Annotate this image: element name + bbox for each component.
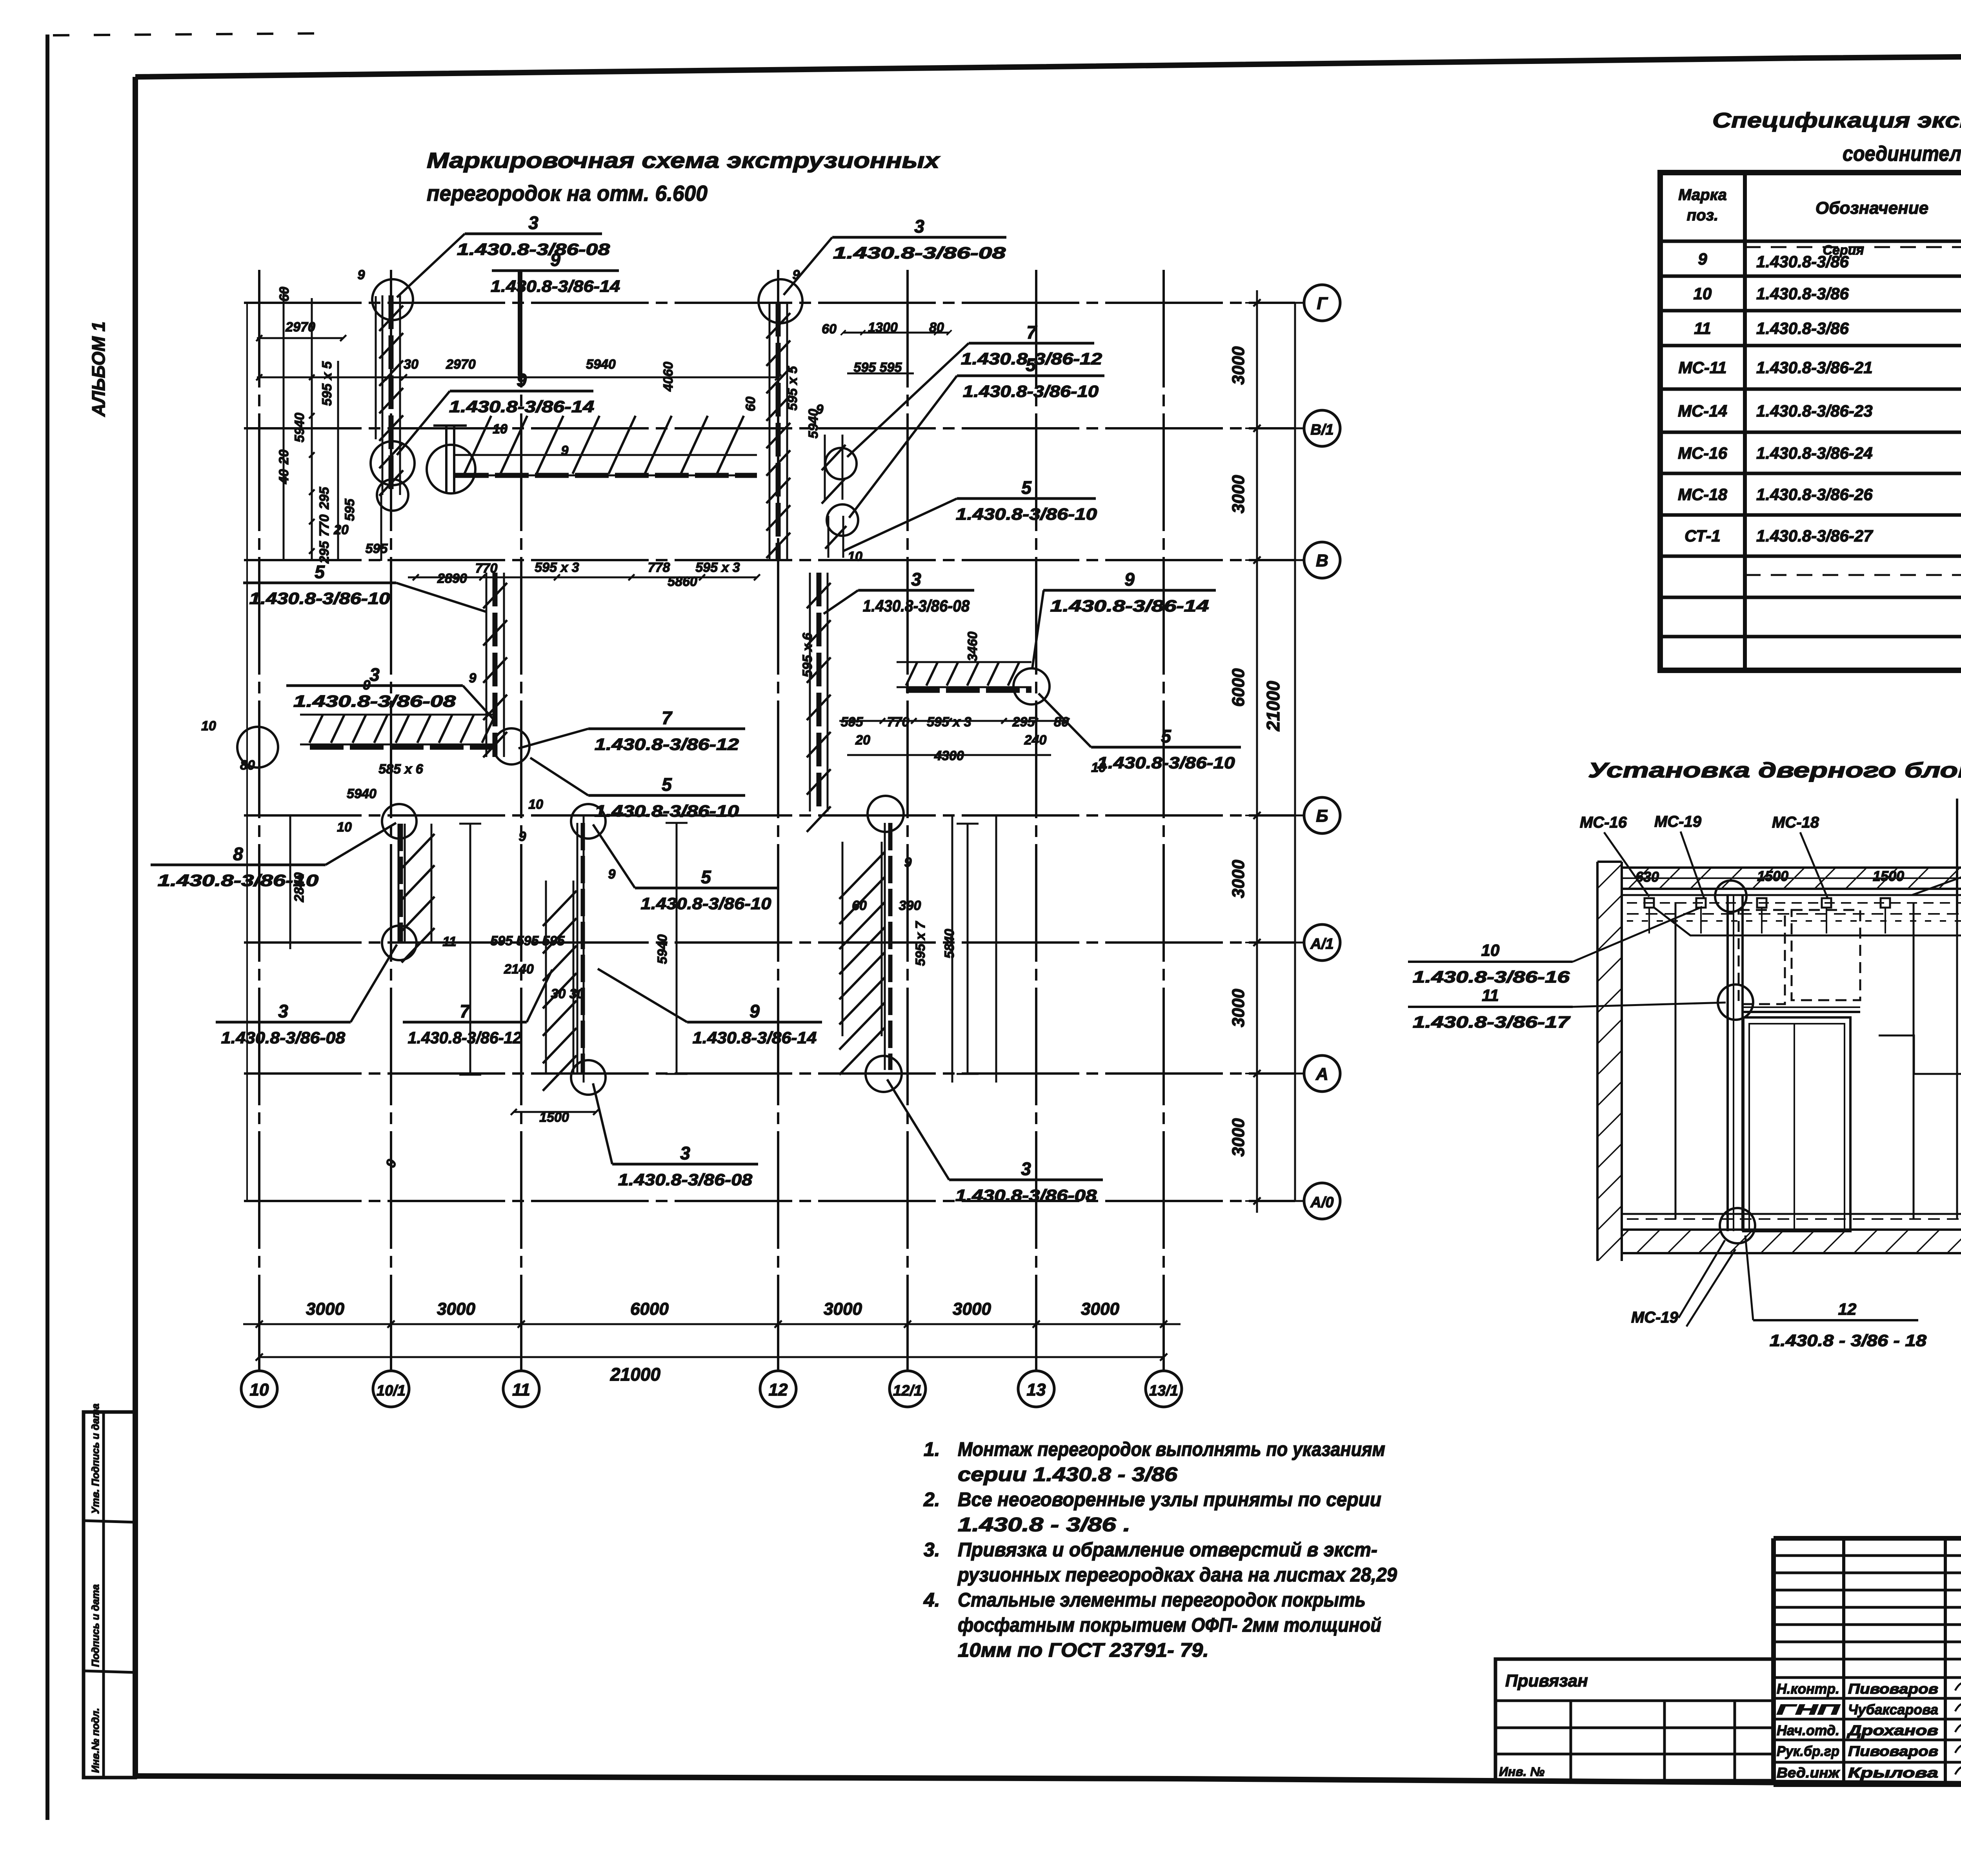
svg-text:595 x 3: 595 x 3 <box>695 560 740 575</box>
svg-text:1.430.8-3/86-14: 1.430.8-3/86-14 <box>491 277 620 295</box>
wall partition W8 on axis 10/1 between Б and А/1 <box>398 824 435 963</box>
svg-text:11: 11 <box>512 1380 530 1399</box>
svg-text:21000: 21000 <box>610 1364 660 1385</box>
right total dimension 21000 <box>1263 303 1295 1201</box>
wall partition W5 between В and Б <box>807 573 831 832</box>
svg-text:11: 11 <box>1482 986 1499 1004</box>
wall detail circle 14 <box>868 796 904 832</box>
svg-text:3: 3 <box>914 216 924 237</box>
svg-text:1.430.8-3/86-14: 1.430.8-3/86-14 <box>449 397 594 416</box>
svg-text:1.430.8-3/86-23: 1.430.8-3/86-23 <box>1756 402 1873 420</box>
sheet outer top-left edge <box>53 33 326 35</box>
svg-text:Н.контр.: Н.контр. <box>1777 1681 1839 1697</box>
wall detail circle 2 <box>371 441 415 485</box>
svg-text:МС-18: МС-18 <box>1772 814 1819 831</box>
wall partition W3 between axes 11 and 12 <box>455 416 757 475</box>
bottom dimension chain 3000/6000 <box>243 1299 1181 1336</box>
svg-text:1.430.8-3/86-08: 1.430.8-3/86-08 <box>833 244 1006 262</box>
wall detail circle 4 <box>377 479 408 511</box>
svg-text:10: 10 <box>1091 760 1106 775</box>
axis bubble А <box>1295 1055 1340 1092</box>
callout 5 series -10 lower-mid <box>593 824 777 913</box>
svg-text:1.430.8-3/86-10: 1.430.8-3/86-10 <box>640 894 771 913</box>
axis bubble А/0 <box>1295 1183 1340 1219</box>
svg-text:1.430.8-3/86: 1.430.8-3/86 <box>1756 319 1849 338</box>
door detail top dimensions <box>1635 868 1904 885</box>
svg-text:390: 390 <box>899 898 921 913</box>
svg-text:1.430.8-3/86-24: 1.430.8-3/86-24 <box>1756 444 1873 462</box>
svg-text:5: 5 <box>662 774 672 795</box>
svg-text:3.: 3. <box>924 1539 940 1561</box>
wall partition W9 between Б and А <box>543 823 583 1091</box>
svg-text:595 x 6: 595 x 6 <box>800 632 815 677</box>
svg-text:А/1: А/1 <box>1310 936 1333 952</box>
sheet outer left border <box>45 35 49 1820</box>
wall partition W1 on axis 10/1 <box>379 295 403 496</box>
title block text <box>1499 1563 1961 1781</box>
axis bubble В/1 <box>1295 410 1340 446</box>
svg-text:60: 60 <box>822 322 837 337</box>
wall partition W6 left of axis 11 <box>300 715 496 747</box>
callout 3 series -08 bottom-right <box>887 1079 1103 1205</box>
svg-text:перегородок на отм. 6.600: перегородок на отм. 6.600 <box>427 181 708 206</box>
svg-text:1.430.8-3/86-10: 1.430.8-3/86-10 <box>1097 753 1235 772</box>
wall detail circle 10 <box>382 804 417 839</box>
svg-text:7: 7 <box>1026 322 1037 342</box>
callout 5 series -10 right-mid <box>843 477 1097 551</box>
svg-text:5840: 5840 <box>942 929 957 959</box>
svg-text:5940: 5940 <box>586 357 616 372</box>
wall partition W7 right of axis 12/1 <box>897 662 1031 690</box>
svg-text:5: 5 <box>1021 477 1032 498</box>
svg-text:фосфатным покрытием ОФП- 2мм: фосфатным покрытием ОФП- 2мм толщиной <box>958 1614 1381 1636</box>
callout 3 series -08 top-left <box>397 213 610 297</box>
inner frame bottom border <box>135 1776 1961 1788</box>
svg-text:МС-19: МС-19 <box>1654 813 1702 830</box>
svg-text:60: 60 <box>743 397 758 411</box>
callout 9 series -14 bottom <box>598 969 822 1047</box>
svg-text:9: 9 <box>749 1001 760 1021</box>
svg-text:60: 60 <box>852 898 867 913</box>
svg-text:9: 9 <box>550 249 560 270</box>
callout 3 series -08 below В <box>824 569 974 615</box>
svg-text:30 30: 30 30 <box>551 986 584 1001</box>
svg-text:778: 778 <box>648 560 670 575</box>
svg-text:Все неоговоренные узлы прин: Все неоговоренные узлы приняты по серии <box>958 1488 1381 1510</box>
svg-text:МС-18: МС-18 <box>1678 485 1728 504</box>
wall detail circle 16 <box>1013 668 1050 704</box>
svg-text:Дроханов: Дроханов <box>1846 1722 1938 1738</box>
svg-text:3000: 3000 <box>306 1299 344 1319</box>
svg-text:3000: 3000 <box>437 1299 475 1319</box>
svg-text:МС-16: МС-16 <box>1678 444 1728 462</box>
column T-profile at axis 11 / B-1 <box>376 296 467 561</box>
callout 5 series -10 right <box>849 355 1104 518</box>
svg-text:1.430.8-3/86-17: 1.430.8-3/86-17 <box>1413 1013 1570 1031</box>
axis bubble А/1 <box>1295 924 1340 961</box>
callout 7 series -12 mid <box>518 708 745 753</box>
svg-text:Привязка и обрамление отвер: Привязка и обрамление отверстий в экст- <box>958 1539 1377 1561</box>
svg-text:Крылова: Крылова <box>1848 1765 1938 1781</box>
wall detail circle 15 <box>866 1056 902 1092</box>
svg-text:Чубаксарова: Чубаксарова <box>1848 1701 1938 1718</box>
svg-text:2970: 2970 <box>285 320 315 335</box>
callout 5 series -10 lower-right <box>1039 693 1241 772</box>
svg-text:Установка дверного блока в: Установка дверного блока в перегородке <box>1588 759 1961 782</box>
spec table rows text <box>1678 243 1961 672</box>
svg-text:7: 7 <box>662 708 673 728</box>
title block grid <box>1495 1538 1961 1785</box>
wall detail circle 11 <box>382 926 417 960</box>
svg-text:10мм по ГОСТ 23791- 79.: 10мм по ГОСТ 23791- 79. <box>958 1639 1209 1661</box>
svg-text:1.430.8-3/86-08: 1.430.8-3/86-08 <box>221 1028 346 1047</box>
wall detail circle 5 <box>237 727 278 768</box>
svg-text:А: А <box>1315 1064 1328 1084</box>
door detail callouts <box>1408 781 1961 1350</box>
svg-text:1.430.8-3/86-14: 1.430.8-3/86-14 <box>1050 597 1209 615</box>
svg-text:10: 10 <box>528 797 543 812</box>
svg-text:240: 240 <box>1024 733 1047 748</box>
svg-text:Инв.№ подл.: Инв.№ подл. <box>89 1708 101 1773</box>
svg-text:1.430.8-3/86-26: 1.430.8-3/86-26 <box>1756 485 1873 504</box>
svg-text:2970: 2970 <box>446 357 476 372</box>
svg-text:5: 5 <box>315 562 325 582</box>
svg-text:3000: 3000 <box>1229 1118 1248 1157</box>
svg-text:12: 12 <box>1838 1300 1857 1318</box>
svg-text:9: 9 <box>904 855 912 870</box>
bottom total dimension 21000 <box>256 1354 1167 1385</box>
svg-text:2890: 2890 <box>437 571 467 586</box>
callout 3 series -08 top-right <box>784 216 1006 295</box>
svg-text:10/1: 10/1 <box>377 1383 406 1399</box>
svg-text:595 x 3: 595 x 3 <box>535 560 579 575</box>
svg-text:3: 3 <box>680 1143 690 1163</box>
svg-text:5940: 5940 <box>292 413 307 442</box>
svg-text:12/1: 12/1 <box>893 1383 922 1399</box>
axis bubble 10 <box>241 1371 277 1407</box>
svg-text:595: 595 <box>366 541 388 556</box>
grid axis line 11 <box>520 270 522 1371</box>
callout 5 series -10 left <box>243 562 486 612</box>
svg-text:Подпись и дата: Подпись и дата <box>89 1584 101 1667</box>
svg-text:1.430.8-3/86-08: 1.430.8-3/86-08 <box>955 1186 1097 1205</box>
svg-text:3: 3 <box>369 664 380 685</box>
svg-text:10: 10 <box>1694 284 1712 303</box>
grid axis line 13/1 <box>1162 270 1165 1371</box>
door frame and leaf <box>1627 881 1961 1243</box>
svg-text:12: 12 <box>769 1380 788 1399</box>
svg-text:В/1: В/1 <box>1310 422 1333 438</box>
svg-text:5: 5 <box>1026 355 1036 375</box>
svg-text:1.430.8-3/86-10: 1.430.8-3/86-10 <box>595 802 739 820</box>
svg-text:Стальные элементы перегородо: Стальные элементы перегородок покрыть <box>958 1589 1366 1611</box>
svg-text:11: 11 <box>1694 319 1711 338</box>
svg-text:295: 295 <box>317 487 332 510</box>
svg-text:5: 5 <box>1161 726 1172 746</box>
callout 7 series -12 bottom <box>403 970 552 1047</box>
specification table grid <box>1660 173 1961 670</box>
svg-text:3: 3 <box>911 569 921 590</box>
svg-text:1.430.8-3/86-12: 1.430.8-3/86-12 <box>408 1028 522 1047</box>
svg-text:Нач.отд.: Нач.отд. <box>1777 1722 1839 1738</box>
axis bubble 10/1 <box>373 1371 409 1407</box>
svg-text:295: 295 <box>1012 715 1035 730</box>
wall detail circle 12 <box>571 804 606 839</box>
svg-text:9: 9 <box>363 678 371 693</box>
svg-text:1.430.8-3/86-10: 1.430.8-3/86-10 <box>249 589 390 608</box>
callout 5 series -10 mid <box>530 758 745 820</box>
svg-text:1.430.8-3/86-27: 1.430.8-3/86-27 <box>1756 527 1873 545</box>
grid axis line 13 <box>1035 270 1037 1371</box>
wall partition W10 between 12 and 12/1 <box>839 823 890 1075</box>
grid axis line Б <box>244 814 1295 817</box>
callout 9 series -14 below В <box>1032 569 1216 668</box>
svg-text:А/0: А/0 <box>1310 1194 1333 1211</box>
svg-text:21000: 21000 <box>1263 681 1283 731</box>
plan small dimension labels <box>201 267 1106 1170</box>
axis bubble 11 <box>503 1371 539 1407</box>
spec table header text <box>1678 183 1961 235</box>
svg-text:2840: 2840 <box>292 872 307 903</box>
svg-text:10: 10 <box>250 1380 269 1399</box>
svg-text:10: 10 <box>337 820 352 835</box>
svg-text:1.430.8-3/86-14: 1.430.8-3/86-14 <box>693 1028 817 1047</box>
door detail wall enclosure <box>1597 862 1961 1261</box>
svg-text:11: 11 <box>442 934 456 949</box>
svg-text:4.: 4. <box>923 1589 940 1611</box>
svg-text:9: 9 <box>1698 250 1707 268</box>
grid axis line 10 <box>258 270 260 1371</box>
svg-text:1.430.8-3/86: 1.430.8-3/86 <box>1756 284 1849 303</box>
svg-text:1500: 1500 <box>1757 868 1788 884</box>
callout 3 series -08 bottom-left <box>216 944 397 1047</box>
svg-text:СТ-1: СТ-1 <box>1684 527 1721 545</box>
svg-text:3: 3 <box>278 1001 288 1021</box>
svg-text:3000: 3000 <box>1229 475 1248 513</box>
svg-text:9: 9 <box>608 867 616 882</box>
svg-text:770: 770 <box>475 561 498 576</box>
svg-text:Марка: Марка <box>1678 186 1727 204</box>
svg-text:1.430.8-3/86-08: 1.430.8-3/86-08 <box>618 1170 753 1189</box>
grid axis line В/1 <box>244 427 1295 429</box>
wall detail circle 9 <box>827 504 858 536</box>
svg-text:770: 770 <box>317 515 332 537</box>
svg-text:5: 5 <box>701 867 711 887</box>
svg-text:серии 1.430.8 - 3/86: серии 1.430.8 - 3/86 <box>958 1463 1178 1485</box>
svg-text:поз.: поз. <box>1687 207 1718 224</box>
svg-text:МС-11: МС-11 <box>1679 358 1727 377</box>
svg-text:13/1: 13/1 <box>1149 1383 1178 1399</box>
svg-text:1.430.8-3/86-08: 1.430.8-3/86-08 <box>293 692 456 710</box>
grid axis line Г <box>244 302 1295 304</box>
svg-text:2.: 2. <box>923 1488 940 1510</box>
svg-text:595: 595 <box>342 499 357 521</box>
svg-text:1500: 1500 <box>1873 868 1904 884</box>
svg-text:9: 9 <box>469 671 477 686</box>
svg-text:20: 20 <box>333 522 349 537</box>
svg-text:1.430.8-3/86-08: 1.430.8-3/86-08 <box>863 597 970 615</box>
wall detail circle 13 <box>571 1060 606 1095</box>
svg-text:595: 595 <box>841 715 864 730</box>
callout 3 series -08 left <box>286 664 495 721</box>
svg-text:585 x 6: 585 x 6 <box>378 762 424 777</box>
inner frame left border <box>133 77 138 1776</box>
callout 9 series -14 top <box>491 249 620 376</box>
svg-text:МС-14: МС-14 <box>1678 402 1727 420</box>
wall partition W4 below axis В <box>483 573 507 757</box>
svg-text:9: 9 <box>1124 569 1135 590</box>
svg-text:5940: 5940 <box>347 786 377 801</box>
svg-text:В: В <box>1316 551 1328 570</box>
svg-text:1.: 1. <box>924 1438 940 1460</box>
svg-text:9: 9 <box>358 267 365 282</box>
grid axis line 12/1 <box>906 270 909 1371</box>
wall detail circle 8 <box>825 448 857 479</box>
svg-text:Пивоваров: Пивоваров <box>1848 1681 1938 1697</box>
svg-text:1.430.8 - 3/86 .: 1.430.8 - 3/86 . <box>958 1514 1130 1536</box>
svg-text:3: 3 <box>528 213 538 233</box>
wall partition W11b above В <box>825 516 846 558</box>
svg-text:рузионных перегородках дана: рузионных перегородках дана на листах 28… <box>957 1564 1397 1586</box>
svg-text:595 x 5: 595 x 5 <box>320 361 335 406</box>
axis bubble 13 <box>1018 1371 1054 1407</box>
svg-text:Монтаж перегородок выполнять: Монтаж перегородок выполнять по указания… <box>958 1438 1385 1460</box>
left side stamp table <box>84 1403 135 1778</box>
svg-text:10: 10 <box>1481 941 1500 959</box>
svg-text:1.430.8-3/86-16: 1.430.8-3/86-16 <box>1413 968 1570 986</box>
axis bubble Г <box>1295 285 1340 321</box>
svg-text:Рук.бр.гр: Рук.бр.гр <box>1777 1743 1839 1759</box>
svg-text:МС-19: МС-19 <box>1631 1309 1679 1326</box>
svg-text:Г: Г <box>1317 294 1328 313</box>
svg-text:1.430.8-3/86-08: 1.430.8-3/86-08 <box>457 240 610 258</box>
svg-text:Утв. Подпись и дата: Утв. Подпись и дата <box>89 1403 101 1514</box>
svg-text:595 x 5: 595 x 5 <box>785 366 800 411</box>
svg-text:9: 9 <box>793 267 800 282</box>
svg-text:595 595 595: 595 595 595 <box>490 933 565 948</box>
wall partition W2 on axis 12 <box>766 303 790 560</box>
grid axis line А/1 <box>244 941 1295 944</box>
svg-text:13: 13 <box>1027 1380 1046 1399</box>
plan auxiliary dimension lines <box>247 288 1070 1201</box>
svg-text:10: 10 <box>493 422 508 437</box>
axis bubble 13/1 <box>1146 1371 1182 1407</box>
wall partition W11a below В/1 <box>822 435 846 504</box>
svg-text:Б: Б <box>1316 806 1328 826</box>
axis bubble Б <box>1295 797 1340 833</box>
svg-text:Спецификация экструзионных п: Спецификация экструзионных перегородок и <box>1712 109 1961 132</box>
svg-text:3000: 3000 <box>1081 1299 1119 1319</box>
svg-text:295: 295 <box>317 541 332 564</box>
svg-text:3: 3 <box>1021 1159 1031 1179</box>
svg-text:1.430.8-3/86-12: 1.430.8-3/86-12 <box>595 735 739 753</box>
svg-text:Серия: Серия <box>1823 243 1864 258</box>
svg-text:10: 10 <box>848 549 862 564</box>
callout 7 series -12 right <box>847 322 1102 457</box>
svg-text:2140: 2140 <box>504 962 534 977</box>
svg-text:8: 8 <box>233 844 243 864</box>
svg-text:Маркировочная схема экструзи: Маркировочная схема экструзионных <box>427 148 940 173</box>
grid axis line 10/1 <box>390 270 392 1371</box>
svg-text:9: 9 <box>519 829 526 844</box>
svg-text:30: 30 <box>404 357 418 372</box>
svg-text:6000: 6000 <box>1229 668 1248 707</box>
svg-text:5940: 5940 <box>655 934 670 964</box>
svg-text:Пивоваров: Пивоваров <box>1848 1743 1938 1759</box>
svg-text:595 x 7: 595 x 7 <box>913 921 928 966</box>
svg-text:соединительных элементов: соединительных элементов <box>1843 142 1961 166</box>
callout 8 series -10 far-left <box>151 823 396 890</box>
axis bubble 12 <box>760 1371 796 1407</box>
wall detail circle 1 <box>372 279 413 320</box>
right dimension chain 3000/6000 <box>1229 290 1269 1213</box>
svg-text:Привязан: Привязан <box>1505 1671 1588 1690</box>
wall detail circle 7 <box>759 279 802 323</box>
svg-text:1.430.8-3/86-21: 1.430.8-3/86-21 <box>1756 358 1873 377</box>
svg-text:770: 770 <box>887 715 910 730</box>
callout 9 series -14 mid-left <box>397 370 594 455</box>
wall detail circle 3 <box>427 445 475 493</box>
svg-text:3460: 3460 <box>965 631 980 661</box>
inner frame top border <box>135 52 1961 77</box>
wall detail circle 6 <box>493 728 529 764</box>
svg-text:1.430.8-3/86-10: 1.430.8-3/86-10 <box>956 505 1097 523</box>
grid axis line А/0 <box>244 1200 1295 1202</box>
callout 3 series -08 bottom-centre <box>593 1083 758 1189</box>
svg-text:7: 7 <box>460 1001 471 1021</box>
svg-text:Инв. №: Инв. № <box>1499 1765 1544 1779</box>
axis bubble 12/1 <box>890 1371 926 1407</box>
svg-text:3000: 3000 <box>1229 346 1248 385</box>
svg-text:АЛЬБОМ 1: АЛЬБОМ 1 <box>88 322 109 417</box>
svg-text:9: 9 <box>816 402 824 417</box>
svg-text:10: 10 <box>201 719 216 733</box>
svg-text:МС-16: МС-16 <box>1580 814 1627 831</box>
svg-text:1.430.8 - 3/86 - 18: 1.430.8 - 3/86 - 18 <box>1770 1331 1927 1350</box>
svg-text:3000: 3000 <box>824 1299 862 1319</box>
svg-text:1.430.8-3/86-10: 1.430.8-3/86-10 <box>963 382 1099 400</box>
svg-text:3000: 3000 <box>1229 860 1248 898</box>
svg-text:3000: 3000 <box>953 1299 991 1319</box>
svg-text:20: 20 <box>855 733 870 748</box>
svg-text:6000: 6000 <box>630 1299 669 1319</box>
svg-text:3000: 3000 <box>1229 989 1248 1027</box>
grid axis line А <box>244 1072 1295 1075</box>
svg-text:Обозначение: Обозначение <box>1815 198 1928 218</box>
general notes <box>923 1438 1397 1661</box>
grid axis line В <box>244 559 1295 561</box>
svg-text:9: 9 <box>561 443 569 458</box>
svg-text:Вед.инж: Вед.инж <box>1777 1765 1841 1781</box>
grid axis line 12 <box>777 270 779 1371</box>
axis bubble В <box>1295 542 1340 578</box>
svg-text:ГНП: ГНП <box>1777 1701 1840 1718</box>
